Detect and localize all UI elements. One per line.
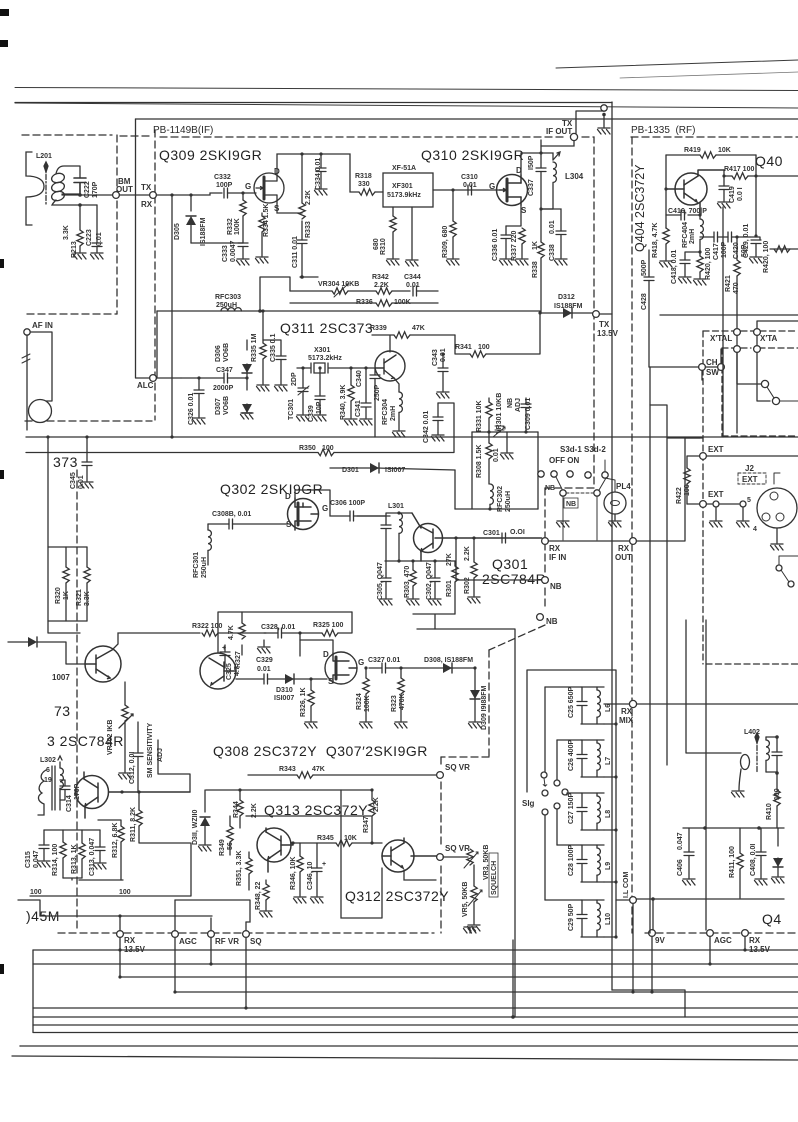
inductor RFC302 <box>490 484 493 504</box>
transistor Q mid left <box>76 772 191 818</box>
wire to antenna stub <box>576 111 604 133</box>
capacitor C306 <box>295 490 350 516</box>
node IL COM <box>616 899 629 901</box>
svg-text:PB-1149B(IF): PB-1149B(IF) <box>153 125 213 136</box>
svg-text:100K: 100K <box>234 218 241 235</box>
svg-text:10P: 10P <box>316 401 323 414</box>
node NB upper <box>456 538 542 580</box>
svg-text:0.047: 0.047 <box>677 832 684 850</box>
wire emitter box <box>413 614 455 629</box>
svg-text:R421: R421 <box>725 275 732 292</box>
resistor R336 <box>290 302 376 304</box>
svg-text:SQUELCH: SQUELCH <box>491 861 498 895</box>
svg-text:Q310 2SKI9GR: Q310 2SKI9GR <box>421 147 524 163</box>
svg-text:C26 400P: C26 400P <box>568 740 575 771</box>
svg-text:NB: NB <box>566 501 576 508</box>
wire NB rail <box>472 431 538 433</box>
svg-text:R309, 680: R309, 680 <box>442 226 449 258</box>
svg-text:C336 0.01: C336 0.01 <box>492 229 499 261</box>
svg-text:OUT: OUT <box>615 553 632 562</box>
svg-text:MIX: MIX <box>619 716 634 725</box>
svg-text:Q40: Q40 <box>755 153 783 169</box>
svg-text:0.01: 0.01 <box>406 282 420 289</box>
wire long y452 <box>26 452 454 454</box>
transistor Q308 <box>200 653 236 689</box>
resistor R349 <box>229 816 231 826</box>
svg-text:RFC304: RFC304 <box>382 399 389 425</box>
svg-text:RX: RX <box>749 936 761 945</box>
svg-text:C418, 0.01: C418, 0.01 <box>671 250 678 284</box>
svg-text:73: 73 <box>54 703 71 719</box>
bus verticals <box>120 936 745 1017</box>
wire long y437 <box>26 436 798 438</box>
trimmer TC301 <box>301 366 304 369</box>
svg-text:C310: C310 <box>461 174 478 181</box>
svg-text:ISI007: ISI007 <box>274 695 294 702</box>
svg-text:L7: L7 <box>605 757 612 765</box>
emitter network RFC304 <box>394 378 399 392</box>
resistor R327 <box>241 645 243 655</box>
svg-text:PB-1335 (RF): PB-1335 (RF) <box>631 125 695 136</box>
svg-text:TX: TX <box>599 320 610 329</box>
capacitor C342 <box>437 403 439 417</box>
svg-text:RFC301: RFC301 <box>193 552 200 578</box>
wire gate Q302 <box>208 523 229 525</box>
svg-text:Q312 2SC372Y: Q312 2SC372Y <box>345 888 449 904</box>
svg-text:C338: C338 <box>549 244 556 261</box>
wire main node <box>62 194 113 196</box>
svg-text:IF IN: IF IN <box>549 553 567 562</box>
svg-text:Q309 2SKI9GR: Q309 2SKI9GR <box>159 147 262 163</box>
svg-text:IS188FM: IS188FM <box>200 217 207 246</box>
svg-text:R213: R213 <box>71 241 78 258</box>
wire RX OUT to EXT <box>636 438 700 541</box>
svg-text:L302: L302 <box>40 757 56 764</box>
resistor R344 <box>239 790 241 800</box>
svg-text:R351, 3.3K: R351, 3.3K <box>236 851 243 886</box>
svg-text:RFC303: RFC303 <box>215 294 241 301</box>
capacitor C329 <box>236 678 264 680</box>
capacitor C416 <box>688 214 700 216</box>
capacitor C338 <box>541 209 561 231</box>
crystal X301 <box>297 363 375 373</box>
resistor R418 <box>665 227 667 229</box>
svg-text:L201: L201 <box>36 153 52 160</box>
svg-text:100: 100 <box>478 344 490 351</box>
svg-text:NB: NB <box>545 485 555 492</box>
capacitor C332 <box>224 188 228 198</box>
rail top Q313 <box>206 789 371 791</box>
svg-text:R347: R347 <box>363 816 370 833</box>
inductor L304 <box>541 153 553 160</box>
svg-text:D309 I9I88FM: D309 I9I88FM <box>481 685 488 730</box>
RF rail top <box>666 154 756 156</box>
trimmer VR5 <box>473 865 475 886</box>
inductor L8 with capacitor C27 <box>567 793 616 830</box>
svg-text:C312, 0.0I: C312, 0.0I <box>129 752 136 784</box>
svg-text:SIg: SIg <box>522 799 535 808</box>
svg-text:R345: R345 <box>317 835 334 842</box>
diode D308 <box>443 663 452 673</box>
svg-text:C305, Q047: C305, Q047 <box>377 562 384 600</box>
node TX IF OUT <box>570 133 577 140</box>
svg-text:TX: TX <box>141 183 152 192</box>
svg-text:2.2K: 2.2K <box>464 546 471 561</box>
svg-text:2.2K: 2.2K <box>251 803 258 818</box>
svg-text:10K: 10K <box>718 147 731 154</box>
big circle connector <box>29 400 52 423</box>
capacitor C418 <box>685 252 700 260</box>
svg-text:EXT: EXT <box>708 490 724 499</box>
svg-text:AF IN: AF IN <box>32 321 53 330</box>
svg-text:RX: RX <box>549 544 561 553</box>
svg-text:G: G <box>322 504 328 513</box>
svg-text:100: 100 <box>119 889 131 896</box>
svg-text:C326 0.01: C326 0.01 <box>188 393 195 425</box>
svg-text:C428: C428 <box>641 293 648 310</box>
svg-text:C429, 0.01: C429, 0.01 <box>743 224 750 258</box>
wire BM to TX <box>119 194 149 196</box>
svg-text:R310: R310 <box>380 238 387 255</box>
svg-text:R313, 1K: R313, 1K <box>71 844 78 874</box>
resistor R340 <box>350 368 352 385</box>
wire RX to gate <box>156 193 222 195</box>
svg-text:G: G <box>489 182 495 191</box>
wire 9V AGC rails <box>636 898 784 900</box>
resistor R417 <box>724 170 732 176</box>
svg-text:R327: R327 <box>235 651 242 668</box>
svg-text:D301: D301 <box>342 467 359 474</box>
svg-text:RFC404: RFC404 <box>682 222 689 248</box>
svg-text:2.2K: 2.2K <box>374 282 389 289</box>
IF board outline PB-1149B <box>22 130 594 933</box>
junction dots buses <box>118 948 746 1009</box>
resistor R335 <box>262 311 264 343</box>
diode D306 varactor <box>246 340 248 350</box>
svg-text:R308 1.5K: R308 1.5K <box>476 445 483 478</box>
svg-text:5173.2kHz: 5173.2kHz <box>308 355 342 362</box>
resistor R322 <box>112 633 200 650</box>
filter bank box <box>527 670 616 937</box>
inductor RFC404 <box>699 215 701 219</box>
svg-text:C327 0.01: C327 0.01 <box>368 657 400 664</box>
capacitor C346 <box>316 843 318 868</box>
svg-text:0.01: 0.01 <box>257 666 271 673</box>
resistor R338 <box>540 209 542 242</box>
inductor RFC303 <box>221 308 241 311</box>
svg-text:C314: C314 <box>66 795 73 812</box>
svg-text:C329: C329 <box>256 657 273 664</box>
bus horizontals <box>12 950 798 1060</box>
svg-text:0.01: 0.01 <box>493 448 500 462</box>
svg-text:0.01: 0.01 <box>440 348 447 362</box>
svg-text:C346, 10: C346, 10 <box>307 861 314 890</box>
resistor R351 <box>248 852 250 858</box>
svg-text:C306 100P: C306 100P <box>330 500 365 507</box>
svg-text:R343: R343 <box>279 766 296 773</box>
svg-text:9V: 9V <box>655 936 665 945</box>
svg-text:VO6B: VO6B <box>223 396 230 415</box>
capacitor C301 <box>502 533 506 543</box>
diode D307 varactor <box>246 378 248 390</box>
svg-text:C313, 0.047: C313, 0.047 <box>89 838 96 876</box>
svg-text:AGC: AGC <box>179 937 197 946</box>
svg-text:R411, 100: R411, 100 <box>729 846 736 878</box>
capacitor C341 <box>361 368 371 418</box>
svg-text:C406: C406 <box>677 859 684 876</box>
svg-text:470K: 470K <box>399 693 406 710</box>
diode D309 <box>473 666 476 669</box>
svg-text:RX: RX <box>124 936 136 945</box>
svg-text:C328, 0.01: C328, 0.01 <box>261 624 295 631</box>
capacitor C333 <box>191 242 243 244</box>
wire cluster rail <box>683 827 784 829</box>
svg-text:C345: C345 <box>70 472 77 489</box>
svg-text:Q404 2SC372Y: Q404 2SC372Y <box>633 164 647 252</box>
resistor R421 <box>735 235 738 238</box>
edge marks <box>0 9 9 974</box>
wire base bias <box>665 155 667 228</box>
RF board outline PB-1335 <box>631 137 798 933</box>
inductor L9 with capacitor C28 <box>557 845 616 882</box>
svg-text:R324: R324 <box>356 693 363 710</box>
svg-text:C416, 700|P: C416, 700|P <box>668 208 707 215</box>
svg-text:R303, 470: R303, 470 <box>404 566 411 598</box>
capacitor C305b <box>385 561 387 578</box>
svg-text:AGC: AGC <box>714 936 732 945</box>
node SQ VR 2 <box>437 854 444 861</box>
svg-text:C341: C341 <box>355 400 362 417</box>
svg-text:D: D <box>285 492 291 501</box>
wire Q307 top <box>300 640 333 653</box>
svg-text:S: S <box>328 677 334 686</box>
capacitor C406 <box>688 828 690 852</box>
svg-text:ADJ: ADJ <box>515 398 522 412</box>
svg-text:OUT: OUT <box>116 185 133 194</box>
svg-text:C340: C340 <box>356 370 363 387</box>
svg-text:RFC302: RFC302 <box>497 486 504 512</box>
svg-text:IS188FM: IS188FM <box>554 303 583 310</box>
svg-text:250uH: 250uH <box>505 491 512 512</box>
svg-text:6: 6 <box>46 767 50 774</box>
svg-text:VR5, 50KB: VR5, 50KB <box>462 882 469 917</box>
resistor R411 <box>739 828 741 853</box>
svg-text:100K: 100K <box>364 695 371 712</box>
capacitor C223 <box>96 205 98 243</box>
node TX RX <box>150 192 157 199</box>
svg-text:19: 19 <box>44 777 52 784</box>
inductor RFC301 <box>208 530 211 550</box>
resistor R332 <box>242 193 244 200</box>
svg-text:56: 56 <box>227 842 234 850</box>
svg-text:R420, 100: R420, 100 <box>705 248 712 280</box>
svg-text:ALC: ALC <box>137 381 154 390</box>
FET Q302 <box>288 498 319 530</box>
svg-text:2.2K: 2.2K <box>305 190 312 205</box>
svg-text:27K: 27K <box>446 553 453 566</box>
resistor R312 <box>98 820 121 826</box>
svg-text:R321: R321 <box>76 589 83 606</box>
svg-text:ISI007: ISI007 <box>385 467 405 474</box>
svg-text:2SC784R: 2SC784R <box>482 571 546 587</box>
resistor R310 <box>392 207 394 216</box>
svg-text:C333: C333 <box>222 245 229 262</box>
svg-text:D308, IS188FM: D308, IS188FM <box>424 657 473 664</box>
capacitor C337 <box>536 168 546 172</box>
svg-text:100P: 100P <box>216 182 233 189</box>
wire 277 rail <box>260 277 318 311</box>
svg-text:I50P: I50P <box>528 155 535 170</box>
resistor R420 <box>699 252 701 256</box>
svg-text:R301: R301 <box>446 580 453 597</box>
svg-text:J2: J2 <box>745 464 754 473</box>
zener D311 <box>204 790 206 812</box>
svg-text:VR302 IKB: VR302 IKB <box>107 720 114 755</box>
svg-text:250uH: 250uH <box>216 302 237 309</box>
svg-text:100: 100 <box>30 889 42 896</box>
svg-text:4: 4 <box>753 526 757 533</box>
capacitor C347 <box>224 373 228 383</box>
FET Q307 <box>325 652 357 684</box>
svg-text:C29 50P: C29 50P <box>568 903 575 931</box>
svg-text:X′TAL: X′TAL <box>710 334 732 343</box>
switch S3d-2 <box>602 472 608 478</box>
resistor R348 <box>265 880 267 884</box>
capacitors C417 C420 series <box>700 236 714 238</box>
svg-text:VR304 10KB: VR304 10KB <box>318 281 359 288</box>
svg-text:RX: RX <box>618 544 630 553</box>
svg-text:1007: 1007 <box>52 673 70 682</box>
svg-text:R348, 22: R348, 22 <box>255 881 262 910</box>
svg-text:R335 1M: R335 1M <box>251 333 258 362</box>
node RX IF IN <box>542 538 549 545</box>
svg-text:C342 0.01: C342 0.01 <box>423 411 430 443</box>
resistor R410 <box>776 773 778 790</box>
svg-text:S: S <box>521 206 527 215</box>
svg-text:R422: R422 <box>676 487 683 504</box>
capacitor C339 <box>318 366 321 369</box>
resistor R318 <box>359 189 375 195</box>
svg-text:C27 150P: C27 150P <box>568 793 575 824</box>
svg-text:L6: L6 <box>605 704 612 712</box>
left lower verticals <box>48 437 80 633</box>
svg-text:D: D <box>323 650 329 659</box>
source network C336 R337 <box>506 205 521 226</box>
wires mid right <box>650 367 703 765</box>
resistor R420b <box>770 248 798 250</box>
capacitor C302 <box>434 561 436 578</box>
inductor L7 with capacitor C26 <box>557 740 616 777</box>
capacitor C326 <box>197 376 200 379</box>
svg-text:C334 0.01: C334 0.01 <box>315 158 322 190</box>
node ALC <box>150 375 157 382</box>
svg-text:IF OUT: IF OUT <box>546 127 572 136</box>
wire collector rail down <box>722 207 724 437</box>
node NB lower <box>537 614 544 621</box>
svg-text:NB: NB <box>550 582 562 591</box>
svg-text:R314, 100: R314, 100 <box>52 844 59 876</box>
drain wire <box>277 154 359 192</box>
svg-text:C302, Q047: C302, Q047 <box>426 562 433 600</box>
svg-text:RF VR: RF VR <box>215 937 239 946</box>
svg-text:0.0047: 0.0047 <box>230 240 237 262</box>
svg-text:G: G <box>358 658 364 667</box>
svg-text:SW: SW <box>706 368 719 377</box>
svg-text:2mH: 2mH <box>390 406 397 421</box>
svg-text:R349: R349 <box>219 839 226 856</box>
svg-text:R410: R410 <box>766 803 773 820</box>
svg-text:C301: C301 <box>483 530 500 537</box>
capacitor C345 <box>86 437 88 462</box>
resistor R308 <box>486 443 492 459</box>
svg-text:47K: 47K <box>312 766 325 773</box>
svg-text:R323: R323 <box>391 695 398 712</box>
svg-text:D312: D312 <box>558 294 575 301</box>
svg-text:250uH: 250uH <box>201 557 208 578</box>
resistor R324 <box>364 666 367 669</box>
svg-text:R419: R419 <box>684 147 701 154</box>
transistor Q404 <box>666 170 724 215</box>
svg-text:R339: R339 <box>370 325 387 332</box>
svg-text:680: 680 <box>373 238 380 250</box>
label NB box <box>564 498 578 508</box>
transistor Q313 <box>257 828 293 872</box>
resistor R346 <box>299 843 301 856</box>
svg-text:VO6B: VO6B <box>223 343 230 362</box>
resistor R303 <box>412 561 414 570</box>
wire rail down right <box>611 102 613 990</box>
svg-text:SQ VR: SQ VR <box>445 844 470 853</box>
svg-text:R336: R336 <box>356 299 373 306</box>
svg-text:373: 373 <box>53 454 78 470</box>
left bus steps <box>20 950 33 1046</box>
svg-text:Q311 2SC373: Q311 2SC373 <box>280 320 373 336</box>
svg-text:R326, 1K: R326, 1K <box>300 687 307 717</box>
svg-text:RX: RX <box>141 200 153 209</box>
capacitor C428 <box>648 250 650 277</box>
capacitor C312 <box>137 722 139 753</box>
svg-text:R420, 100: R420, 100 <box>763 241 770 273</box>
capacitor C334 <box>319 152 322 155</box>
svg-text:C308B, 0.01: C308B, 0.01 <box>212 511 251 518</box>
svg-text:5: 5 <box>747 497 751 504</box>
wire XF to gate <box>433 189 498 191</box>
svg-text:R337 220: R337 220 <box>511 231 518 261</box>
svg-text:470: 470 <box>733 282 740 294</box>
svg-text:47K: 47K <box>412 325 425 332</box>
svg-text:C332: C332 <box>214 174 231 181</box>
svg-text:100P: 100P <box>721 241 728 258</box>
wire bottom left rails <box>40 915 212 917</box>
svg-text:+: + <box>322 861 326 868</box>
crystal filter XF301 <box>383 173 433 207</box>
node BM OUT <box>113 192 120 199</box>
svg-text:SQ: SQ <box>250 937 262 946</box>
transformer L201 <box>26 152 97 225</box>
svg-text:330: 330 <box>358 181 370 188</box>
svg-text:C223: C223 <box>86 229 93 246</box>
capacitor C419 <box>723 176 725 186</box>
svg-text:TC301: TC301 <box>288 399 295 420</box>
svg-text:G: G <box>245 182 251 191</box>
svg-text:13.5V: 13.5V <box>597 329 619 338</box>
svg-text:R344: R344 <box>233 801 240 818</box>
svg-text:R333: R333 <box>305 221 312 238</box>
switch arm right <box>761 380 768 387</box>
source network R334 C311 R333 <box>277 203 302 213</box>
svg-text:EXT: EXT <box>708 445 724 454</box>
node RX OUT <box>548 540 629 542</box>
